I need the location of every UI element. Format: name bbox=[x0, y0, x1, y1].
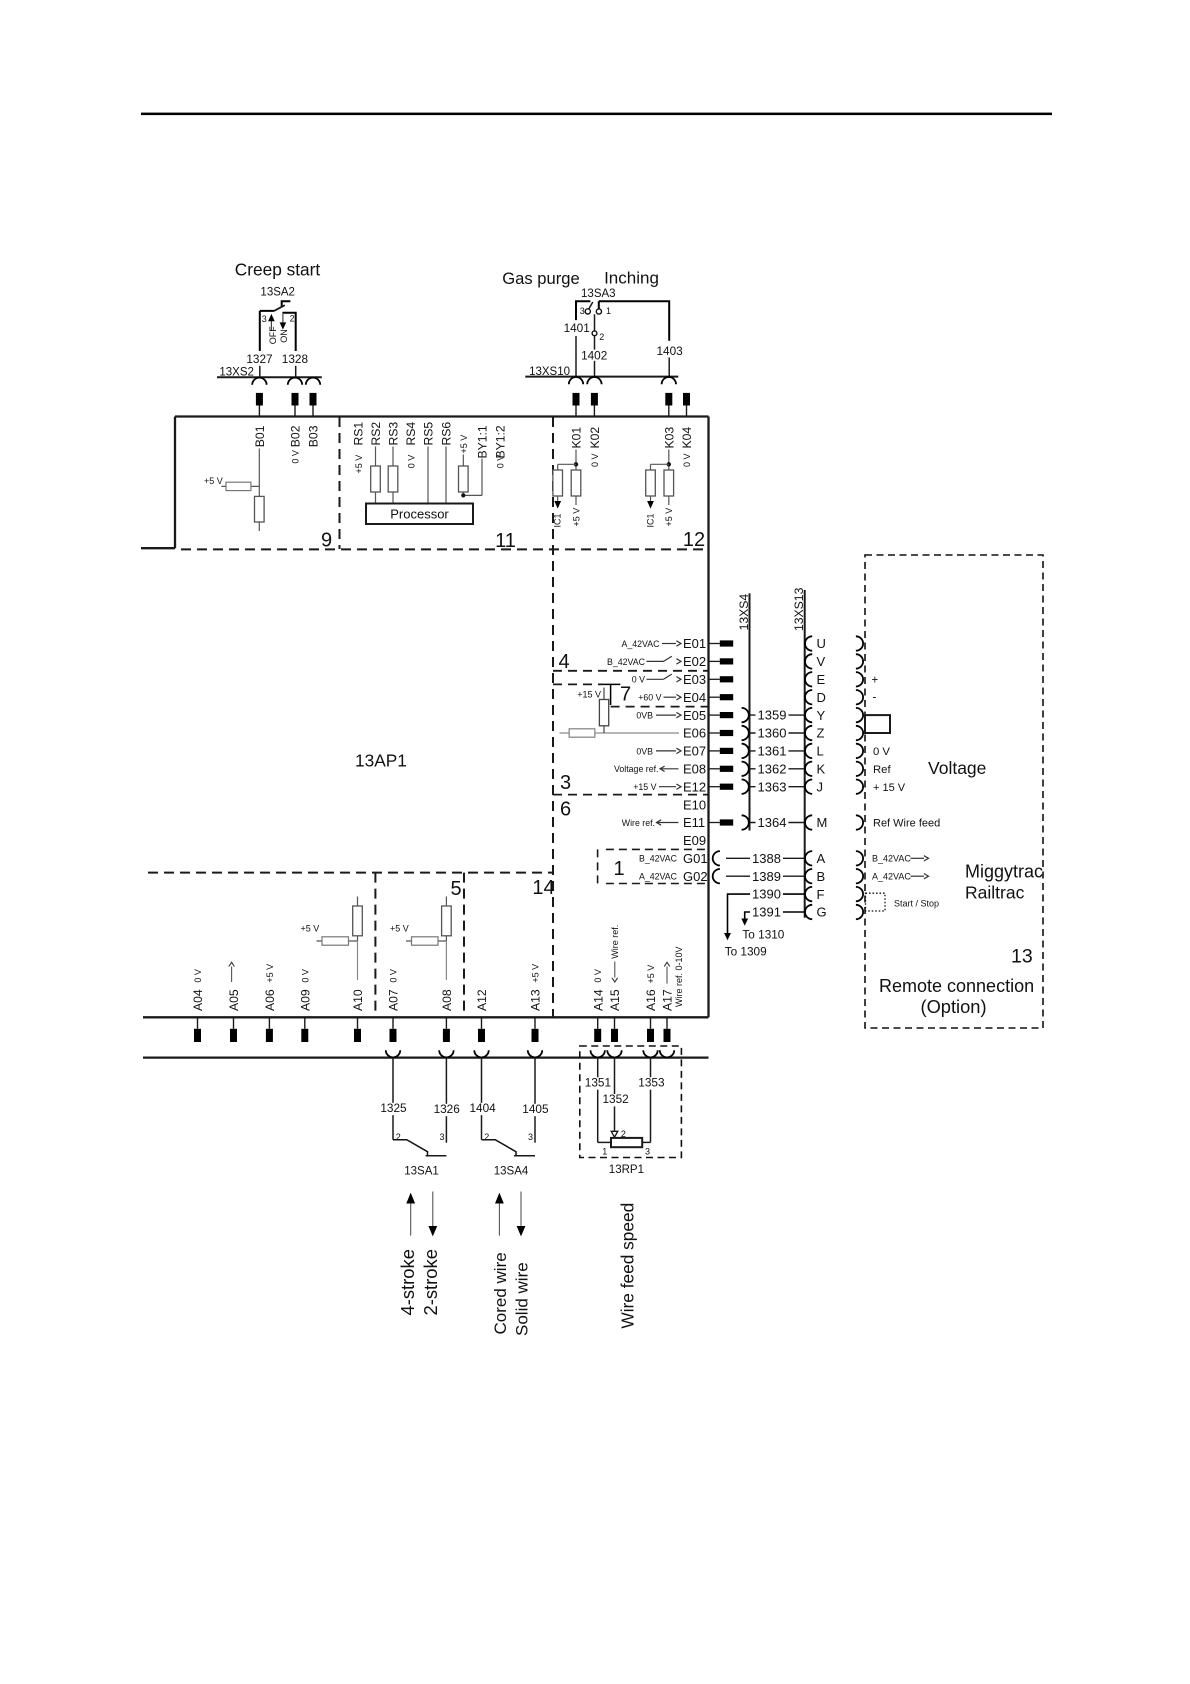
svg-text:Start / Stop: Start / Stop bbox=[894, 899, 939, 909]
svg-text:Wire ref.: Wire ref. bbox=[622, 818, 655, 828]
svg-text:K03: K03 bbox=[662, 427, 676, 449]
svg-text:Creep start: Creep start bbox=[235, 260, 321, 280]
svg-text:A06: A06 bbox=[263, 989, 277, 1011]
svg-text:A_42VAC: A_42VAC bbox=[872, 872, 911, 882]
svg-text:12: 12 bbox=[683, 529, 705, 551]
svg-text:1404: 1404 bbox=[469, 1101, 496, 1115]
svg-text:13SA3: 13SA3 bbox=[581, 288, 616, 300]
svg-text:13: 13 bbox=[1011, 945, 1033, 967]
svg-text:A14: A14 bbox=[591, 989, 605, 1011]
svg-text:A15: A15 bbox=[608, 989, 622, 1011]
svg-text:13SA2: 13SA2 bbox=[260, 286, 295, 298]
svg-text:0 V: 0 V bbox=[873, 746, 890, 758]
svg-text:1391: 1391 bbox=[752, 905, 781, 920]
svg-text:To 1310: To 1310 bbox=[742, 928, 784, 942]
svg-text:Remote connection: Remote connection bbox=[879, 976, 1034, 996]
svg-text:+5 V: +5 V bbox=[571, 508, 581, 527]
svg-text:9: 9 bbox=[321, 530, 332, 552]
svg-text:A17: A17 bbox=[661, 989, 675, 1011]
svg-text:0 V: 0 V bbox=[495, 455, 505, 469]
svg-text:1389: 1389 bbox=[752, 869, 781, 884]
svg-text:+60 V: +60 V bbox=[638, 693, 661, 703]
svg-text:Miggytrac: Miggytrac bbox=[965, 861, 1043, 881]
svg-text:K04: K04 bbox=[680, 427, 694, 449]
svg-text:13SA4: 13SA4 bbox=[494, 1166, 529, 1178]
svg-text:U: U bbox=[817, 636, 826, 651]
svg-text:0 V: 0 V bbox=[389, 969, 399, 983]
svg-text:E05: E05 bbox=[683, 708, 706, 723]
svg-text:1352: 1352 bbox=[602, 1092, 628, 1106]
svg-text:1362: 1362 bbox=[758, 761, 787, 776]
svg-text:1: 1 bbox=[606, 306, 611, 316]
svg-text:B_42VAC: B_42VAC bbox=[872, 854, 911, 864]
svg-text:1325: 1325 bbox=[380, 1101, 407, 1115]
svg-text:0VB: 0VB bbox=[636, 746, 653, 756]
svg-text:3: 3 bbox=[645, 1146, 650, 1156]
svg-text:4-stroke: 4-stroke bbox=[397, 1249, 418, 1315]
svg-text:1363: 1363 bbox=[758, 779, 787, 794]
svg-text:E09: E09 bbox=[683, 833, 706, 848]
svg-text:RS5: RS5 bbox=[422, 422, 436, 446]
svg-text:1359: 1359 bbox=[758, 708, 787, 723]
svg-text:IC1: IC1 bbox=[553, 513, 563, 527]
svg-text:13RP1: 13RP1 bbox=[609, 1164, 644, 1176]
svg-text:A12: A12 bbox=[475, 989, 489, 1011]
svg-text:0 V: 0 V bbox=[593, 969, 603, 983]
svg-text:B_42VAC: B_42VAC bbox=[607, 657, 646, 667]
svg-text:1353: 1353 bbox=[638, 1076, 665, 1090]
svg-text:13AP1: 13AP1 bbox=[355, 751, 407, 771]
svg-text:1326: 1326 bbox=[434, 1102, 461, 1116]
svg-text:A16: A16 bbox=[644, 989, 658, 1011]
svg-text:Wire ref. 0-10V: Wire ref. 0-10V bbox=[674, 946, 684, 1007]
svg-text:+5 V: +5 V bbox=[646, 965, 656, 984]
svg-text:3: 3 bbox=[528, 1132, 533, 1142]
svg-text:K: K bbox=[817, 762, 826, 777]
svg-text:+5 V: +5 V bbox=[459, 435, 469, 454]
svg-text:+5 V: +5 V bbox=[664, 508, 674, 527]
svg-text:E07: E07 bbox=[683, 744, 706, 759]
svg-text:E11: E11 bbox=[683, 815, 705, 830]
svg-text:0 V: 0 V bbox=[590, 453, 600, 467]
svg-text:+: + bbox=[872, 674, 879, 686]
svg-text:1403: 1403 bbox=[656, 344, 683, 358]
svg-text:E03: E03 bbox=[683, 672, 706, 687]
svg-text:2: 2 bbox=[396, 1132, 401, 1142]
svg-text:A05: A05 bbox=[227, 989, 241, 1011]
svg-text:B02: B02 bbox=[289, 425, 303, 447]
svg-text:1388: 1388 bbox=[752, 851, 781, 866]
svg-text:5: 5 bbox=[450, 878, 461, 900]
svg-text:14: 14 bbox=[532, 877, 554, 899]
svg-text:K02: K02 bbox=[588, 427, 602, 449]
svg-text:1401: 1401 bbox=[564, 321, 590, 335]
svg-text:E04: E04 bbox=[683, 690, 706, 705]
svg-text:2: 2 bbox=[290, 314, 295, 324]
svg-text:A_42VAC: A_42VAC bbox=[639, 872, 678, 882]
svg-text:1328: 1328 bbox=[282, 352, 309, 366]
svg-text:2-stroke: 2-stroke bbox=[420, 1249, 441, 1315]
svg-text:Inching: Inching bbox=[604, 269, 659, 288]
svg-text:Wire feed speed: Wire feed speed bbox=[618, 1203, 638, 1329]
svg-text:B_42VAC: B_42VAC bbox=[639, 854, 678, 864]
svg-text:A09: A09 bbox=[298, 989, 312, 1011]
svg-text:G01: G01 bbox=[683, 851, 708, 866]
svg-text:D: D bbox=[817, 690, 826, 705]
svg-text:Processor: Processor bbox=[390, 506, 449, 521]
svg-text:OFF: OFF bbox=[268, 326, 278, 344]
svg-text:F: F bbox=[817, 887, 825, 902]
svg-text:3: 3 bbox=[439, 1132, 444, 1142]
svg-text:B03: B03 bbox=[307, 425, 321, 447]
svg-text:+5 V: +5 V bbox=[354, 455, 364, 474]
svg-text:Voltage ref.: Voltage ref. bbox=[614, 764, 659, 774]
svg-text:2: 2 bbox=[599, 332, 604, 342]
svg-text:Gas purge: Gas purge bbox=[502, 269, 579, 288]
svg-text:Cored wire: Cored wire bbox=[491, 1252, 510, 1334]
svg-text:3: 3 bbox=[560, 772, 571, 794]
svg-text:1: 1 bbox=[602, 1146, 607, 1156]
svg-text:1402: 1402 bbox=[581, 348, 607, 362]
svg-text:A_42VAC: A_42VAC bbox=[622, 639, 661, 649]
svg-text:(Option): (Option) bbox=[921, 996, 987, 1017]
svg-text:E: E bbox=[817, 672, 826, 687]
svg-text:0 V: 0 V bbox=[193, 969, 203, 983]
svg-text:1327: 1327 bbox=[246, 352, 272, 366]
svg-text:To 1309: To 1309 bbox=[725, 945, 767, 959]
svg-text:A13: A13 bbox=[529, 989, 543, 1011]
svg-text:13XS13: 13XS13 bbox=[792, 587, 806, 631]
svg-text:RS2: RS2 bbox=[369, 422, 383, 446]
svg-text:+5 V: +5 V bbox=[265, 964, 275, 983]
svg-text:+5 V: +5 V bbox=[390, 924, 409, 934]
svg-text:4: 4 bbox=[558, 651, 569, 673]
svg-text:E01: E01 bbox=[683, 636, 706, 651]
svg-text:Railtrac: Railtrac bbox=[965, 882, 1025, 902]
svg-text:6: 6 bbox=[560, 799, 571, 821]
svg-text:A04: A04 bbox=[191, 989, 205, 1011]
svg-text:1351: 1351 bbox=[585, 1076, 611, 1090]
svg-text:1360: 1360 bbox=[758, 726, 787, 741]
svg-text:A07: A07 bbox=[387, 989, 401, 1011]
svg-text:RS4: RS4 bbox=[404, 422, 418, 446]
svg-text:A10: A10 bbox=[351, 989, 365, 1011]
svg-text:Z: Z bbox=[817, 726, 825, 741]
svg-text:G02: G02 bbox=[683, 869, 708, 884]
svg-text:1390: 1390 bbox=[752, 887, 781, 902]
svg-text:+ 15 V: + 15 V bbox=[873, 782, 906, 794]
svg-text:0VB: 0VB bbox=[636, 711, 653, 721]
svg-text:B01: B01 bbox=[253, 425, 267, 447]
svg-text:K01: K01 bbox=[570, 427, 584, 449]
svg-text:+5 V: +5 V bbox=[204, 476, 223, 486]
svg-text:A: A bbox=[817, 851, 826, 866]
svg-text:+15 V: +15 V bbox=[577, 690, 601, 700]
svg-text:2: 2 bbox=[484, 1132, 489, 1142]
svg-text:1364: 1364 bbox=[758, 815, 787, 830]
svg-text:0 V: 0 V bbox=[682, 453, 692, 467]
svg-text:E10: E10 bbox=[683, 797, 706, 812]
svg-text:RS6: RS6 bbox=[440, 422, 454, 446]
svg-text:0 V: 0 V bbox=[291, 450, 301, 464]
svg-text:13XS4: 13XS4 bbox=[737, 594, 751, 631]
svg-text:0 V: 0 V bbox=[406, 455, 416, 469]
svg-text:0 V: 0 V bbox=[300, 969, 310, 983]
svg-text:Y: Y bbox=[817, 708, 826, 723]
svg-text:+5 V: +5 V bbox=[531, 964, 541, 983]
svg-text:BY1:2: BY1:2 bbox=[494, 425, 508, 458]
svg-text:IC1: IC1 bbox=[645, 513, 655, 527]
svg-text:Voltage: Voltage bbox=[928, 758, 986, 778]
svg-text:1361: 1361 bbox=[758, 744, 787, 759]
svg-text:RS1: RS1 bbox=[352, 422, 366, 446]
svg-text:+5 V: +5 V bbox=[301, 924, 320, 934]
svg-text:B: B bbox=[817, 869, 826, 884]
svg-text:0 V: 0 V bbox=[632, 675, 645, 685]
svg-text:E06: E06 bbox=[683, 726, 706, 741]
svg-text:Wire ref.: Wire ref. bbox=[610, 925, 620, 959]
svg-text:ON: ON bbox=[279, 329, 289, 343]
svg-text:Ref: Ref bbox=[873, 764, 891, 776]
svg-text:+15 V: +15 V bbox=[633, 782, 656, 792]
svg-text:3: 3 bbox=[580, 306, 585, 316]
svg-text:7: 7 bbox=[620, 684, 631, 706]
svg-text:BY1:1: BY1:1 bbox=[476, 425, 490, 458]
svg-text:E12: E12 bbox=[683, 779, 706, 794]
svg-text:1: 1 bbox=[613, 858, 624, 880]
svg-text:E08: E08 bbox=[683, 762, 706, 777]
svg-text:G: G bbox=[817, 905, 827, 920]
svg-text:1405: 1405 bbox=[522, 1102, 549, 1116]
svg-text:L: L bbox=[817, 744, 824, 759]
svg-text:E02: E02 bbox=[683, 654, 706, 669]
svg-text:13SA1: 13SA1 bbox=[404, 1166, 439, 1178]
svg-text:M: M bbox=[817, 815, 828, 830]
svg-text:Solid wire: Solid wire bbox=[512, 1262, 531, 1336]
svg-text:Ref Wire feed: Ref Wire feed bbox=[873, 818, 940, 830]
svg-text:3: 3 bbox=[262, 314, 267, 324]
svg-text:A08: A08 bbox=[440, 989, 454, 1011]
svg-text:V: V bbox=[817, 654, 826, 669]
svg-text:J: J bbox=[817, 779, 824, 794]
svg-text:11: 11 bbox=[495, 530, 516, 552]
svg-text:-: - bbox=[873, 692, 877, 704]
svg-text:RS3: RS3 bbox=[387, 422, 401, 446]
